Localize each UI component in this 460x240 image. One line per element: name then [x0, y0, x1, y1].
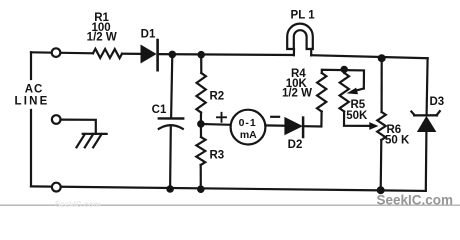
- wire bottom rail: [31, 186, 426, 191]
- diode D1: [141, 40, 158, 70]
- left vertical wire lower: [30, 110, 32, 186]
- svg-text:1/2 W: 1/2 W: [87, 32, 117, 44]
- wire meter to D2: [265, 124, 284, 126]
- svg-text:50K: 50K: [346, 110, 368, 122]
- wire R3 bottom lead: [200, 165, 202, 189]
- wire R6 bottom lead: [380, 140, 383, 190]
- minus sign: [271, 116, 279, 118]
- svg-text:D2: D2: [288, 139, 303, 151]
- wire terminal to ground: [61, 120, 96, 134]
- terminal top-left: [52, 48, 61, 57]
- svg-text:SeekIC.com: SeekIC.com: [377, 193, 454, 208]
- wire D3 branch top: [427, 58, 428, 114]
- pilot lamp PL1: [287, 24, 313, 56]
- wire R4/R5 top: [322, 70, 364, 89]
- wire R2 to node: [200, 113, 202, 124]
- resistor R4: [317, 73, 326, 112]
- watermark bottom line: [0, 204, 460, 206]
- svg-text:SeekIC.com: SeekIC.com: [55, 200, 100, 209]
- capacitor C1: [159, 118, 183, 189]
- svg-text:R2: R2: [210, 91, 225, 103]
- potentiometer R6: [377, 112, 386, 140]
- wire R5 bottom to R6 wiper: [344, 112, 371, 126]
- svg-text:R3: R3: [210, 150, 225, 162]
- wire C1 branch upper: [171, 54, 172, 118]
- label R1 value: [87, 12, 117, 43]
- ground (chassis): [77, 134, 107, 148]
- potentiometer R5: [340, 73, 350, 112]
- node junction C1 bottom: [166, 185, 174, 193]
- wire R5 top lead: [343, 69, 345, 73]
- diode D2: [284, 117, 303, 137]
- plus sign: [217, 113, 226, 122]
- label AC LINE: [15, 84, 50, 108]
- wire node to meter: [205, 123, 231, 126]
- svg-text:0-1: 0-1: [239, 117, 257, 129]
- node junction R5 top: [341, 66, 348, 73]
- svg-text:AC: AC: [25, 84, 44, 96]
- R5 wiper arrow: [347, 88, 364, 95]
- svg-text:D1: D1: [141, 28, 156, 40]
- svg-text:LINE: LINE: [15, 96, 50, 108]
- meter M1 0-1 mA: [231, 110, 266, 145]
- node junction D1-C1: [169, 51, 177, 59]
- terminal middle-left: [52, 115, 61, 124]
- node junction R6 top rail: [378, 54, 386, 62]
- svg-text:1/2 W: 1/2 W: [282, 88, 312, 100]
- left vertical wire upper: [30, 52, 32, 79]
- wire D2 to R4 bottom: [304, 112, 321, 127]
- svg-text:D3: D3: [430, 96, 445, 108]
- svg-text:50 K: 50 K: [385, 135, 410, 147]
- resistor R3: [196, 137, 205, 165]
- wire node to R3: [200, 124, 202, 137]
- terminal bottom-left: [52, 183, 61, 192]
- svg-text:C1: C1: [152, 104, 167, 116]
- R6 wiper arrow: [369, 122, 378, 130]
- wire D3 bottom: [425, 132, 428, 191]
- svg-text:PL 1: PL 1: [291, 10, 316, 22]
- resistor R1: [93, 49, 122, 58]
- wire top rail left segment: [31, 52, 93, 53]
- zener diode D3: [411, 111, 439, 132]
- wire D1 to lamp: [159, 53, 294, 56]
- svg-text:mA: mA: [240, 129, 257, 141]
- node junction R6 bottom: [377, 186, 385, 194]
- wire lamp to top-right corner: [311, 55, 428, 58]
- resistor R2: [196, 73, 206, 113]
- label R4 value: [282, 68, 312, 100]
- wire R2 branch top lead: [200, 55, 202, 73]
- wire R6 top lead: [381, 58, 383, 112]
- node junction R3 bottom: [197, 185, 205, 193]
- node junction meter/R2/R3: [197, 120, 205, 128]
- node junction R2 top: [197, 51, 205, 59]
- wire R1 to D1: [122, 53, 141, 55]
